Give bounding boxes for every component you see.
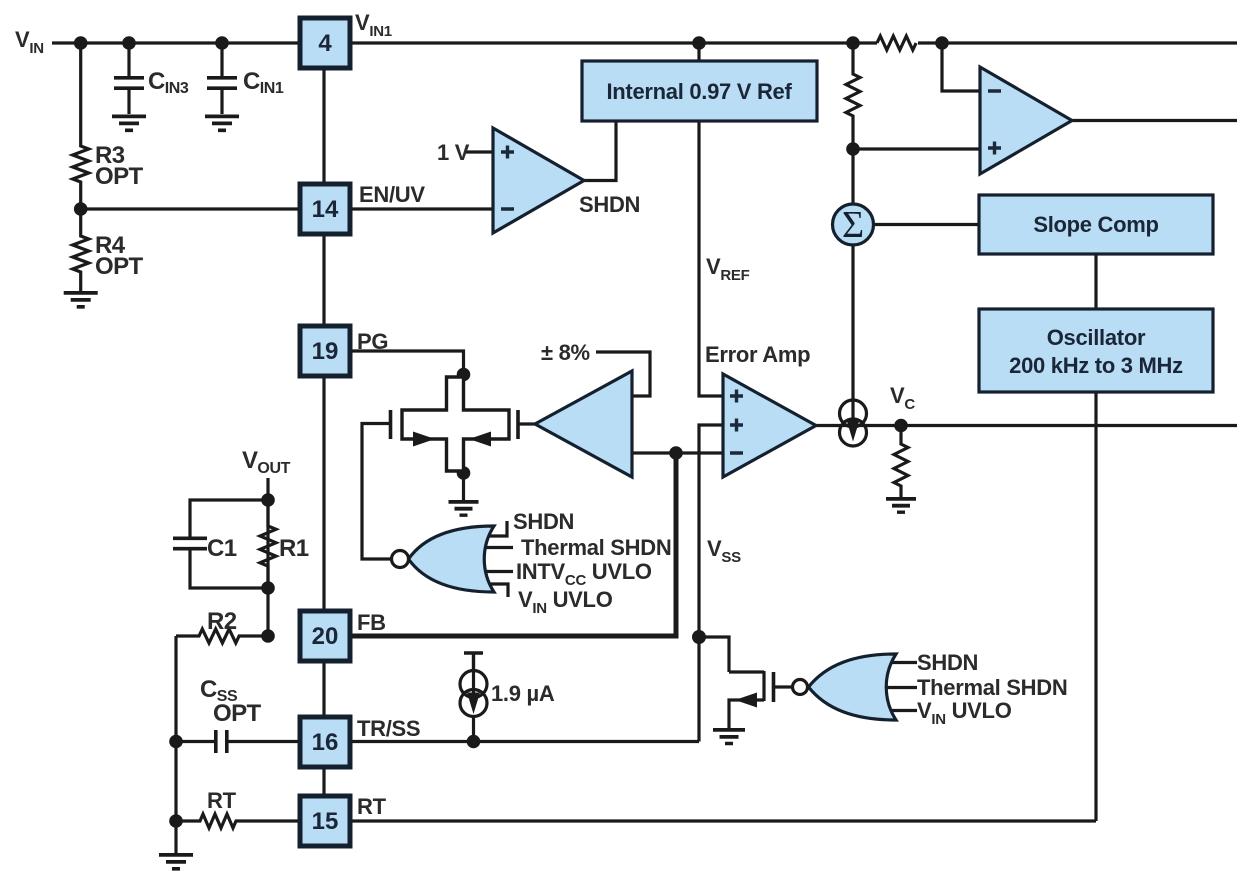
pin box 14	[300, 184, 350, 234]
node cross switch top junction	[457, 368, 471, 382]
svg-text:± 8%: ± 8%	[541, 340, 590, 365]
pin box 15	[300, 796, 350, 846]
logic gate NOR1 (4-input)	[392, 521, 514, 597]
svg-text:EN/UV: EN/UV	[359, 182, 425, 207]
wire VC output	[816, 424, 1237, 427]
current source I1 (VC)	[840, 399, 867, 446]
svg-text:VOUT: VOUT	[242, 447, 291, 477]
svg-text:FB: FB	[357, 610, 386, 635]
node sense resistor right junction	[935, 36, 949, 50]
node divider top junction	[846, 36, 860, 50]
wire VIN top rail	[52, 41, 877, 44]
node cross switch bottom junction	[457, 466, 471, 480]
wire FB thick net vertical	[350, 453, 676, 636]
pin box 16	[300, 717, 350, 767]
capacitor C1 branch	[190, 500, 268, 588]
resistor R2	[176, 629, 268, 643]
ground mosfet source	[713, 728, 745, 745]
wire PG pin to cross switch	[350, 351, 464, 377]
svg-text:OPT: OPT	[95, 253, 143, 280]
current source I2 (1.9uA)	[460, 671, 487, 717]
op-amp U4 PG comparator (mirrored)	[535, 371, 632, 477]
wire left ground rail	[174, 636, 177, 853]
svg-text:RT: RT	[357, 794, 387, 819]
resistor divider vertical	[846, 43, 860, 149]
capacitor CIN1 lead	[220, 43, 223, 114]
resistor R4	[73, 209, 89, 291]
node R3 R4 junction	[74, 202, 88, 216]
svg-text:VC: VC	[890, 383, 915, 413]
capacitor CIN3 lead	[127, 43, 130, 114]
svg-text:PG: PG	[357, 329, 388, 354]
node CIN3 junction	[122, 36, 136, 50]
svg-text:CIN1: CIN1	[243, 68, 284, 97]
node CSS left junction	[169, 735, 183, 749]
svg-text:Internal 0.97 V Ref: Internal 0.97 V Ref	[606, 79, 792, 104]
capacitor CSS plates	[216, 730, 227, 753]
wire sigma to slope comp	[874, 223, 980, 226]
svg-text:Thermal SHDN: Thermal SHDN	[521, 535, 671, 560]
svg-text:16: 16	[312, 729, 339, 756]
svg-text:1 V: 1 V	[437, 140, 470, 165]
svg-text:INTVCC UVLO: INTVCC UVLO	[516, 559, 652, 589]
wire sigma to current source	[851, 245, 854, 399]
op-amp U3 error amp	[723, 374, 816, 477]
resistor RT	[176, 814, 300, 828]
wire SHDN comparator output	[584, 121, 616, 181]
svg-text:OPT: OPT	[213, 700, 261, 727]
block Internal 0.97 V Ref	[582, 61, 817, 121]
svg-text:R1: R1	[279, 535, 309, 562]
svg-text:Oscillator: Oscillator	[1047, 325, 1146, 350]
svg-text:SHDN: SHDN	[579, 192, 640, 217]
summing node sigma	[833, 204, 874, 246]
svg-text:4: 4	[318, 30, 332, 57]
svg-text:VIN: VIN	[15, 27, 44, 57]
wire RT right	[350, 819, 1096, 822]
svg-text:19: 19	[312, 338, 339, 365]
svg-text:VREF: VREF	[706, 254, 750, 284]
wire 1V to comparator	[466, 150, 493, 153]
capacitor CIN3 plates	[114, 78, 144, 88]
ground VC resistor	[886, 497, 916, 514]
node R1 bottom junction	[261, 581, 275, 595]
node error amp minus junction	[669, 446, 683, 460]
wire TR/SS	[350, 740, 699, 743]
svg-text:R2: R2	[207, 608, 237, 635]
capacitor CSS lead left	[176, 740, 215, 743]
logic gate NOR2 (3-input)	[793, 654, 918, 720]
resistor (top rail current sense)	[877, 36, 916, 50]
svg-text:VIN UVLO: VIN UVLO	[518, 587, 613, 617]
svg-text:CIN3: CIN3	[148, 68, 189, 97]
svg-text:RT: RT	[207, 788, 237, 813]
wire pin column	[322, 43, 325, 821]
wire VOUT branch	[266, 478, 269, 636]
op-amp U1 SHDN comparator	[493, 128, 584, 233]
svg-text:Σ: Σ	[842, 204, 864, 246]
wire PG comparator to error amp minus	[632, 451, 723, 454]
svg-text:Slope Comp: Slope Comp	[1033, 212, 1158, 237]
svg-text:OPT: OPT	[95, 163, 143, 190]
node VC junction	[894, 419, 908, 433]
svg-text:VIN1: VIN1	[355, 10, 392, 40]
wire ref box top	[697, 43, 700, 61]
node CIN1 junction	[215, 36, 229, 50]
node divider mid junction	[846, 142, 860, 156]
svg-text:VSS: VSS	[707, 536, 741, 566]
ground CIN3	[112, 115, 146, 133]
wire pm8 feedback	[596, 352, 650, 396]
resistor R1	[260, 500, 276, 588]
wire EN/UV	[81, 207, 493, 210]
svg-text:SHDN: SHDN	[917, 650, 978, 675]
capacitor CIN1 plates	[207, 78, 237, 88]
ground cross switch	[449, 500, 479, 517]
wire VSS vertical	[699, 425, 723, 742]
capacitor C1 plates	[173, 538, 207, 548]
wire VREF vertical	[699, 121, 723, 396]
ground R4	[64, 291, 98, 309]
svg-text:Thermal SHDN: Thermal SHDN	[917, 675, 1067, 700]
svg-text:1.9 µA: 1.9 µA	[491, 681, 555, 706]
node RT left junction	[169, 814, 183, 828]
wire sigma top	[851, 149, 854, 204]
block Slope Comp	[979, 195, 1213, 254]
wire mosfet drain from VSS	[699, 637, 729, 672]
node FB R2 junction	[261, 629, 275, 643]
wire top rail right of resistor	[918, 41, 1237, 44]
resistor VC to ground	[894, 426, 908, 498]
current source 1.9uA top bar	[464, 653, 483, 671]
svg-text:15: 15	[312, 808, 339, 835]
wire comparator minus input	[942, 43, 980, 91]
ground CIN1	[205, 115, 239, 133]
block Oscillator	[979, 309, 1213, 392]
transistor Q2 TR/SS pulldown	[729, 671, 793, 728]
wire cross switch right gate	[520, 422, 537, 425]
capacitor CSS lead right	[227, 740, 300, 743]
pin box 4	[300, 18, 350, 68]
wire slope comp to oscillator	[1094, 254, 1097, 309]
pin box 20	[300, 611, 350, 661]
op-amp U2 top comparator	[980, 67, 1072, 174]
node VSS mosfet junction	[692, 630, 706, 644]
wire cross switch left gate	[362, 424, 392, 560]
svg-text:200 kHz to 3 MHz: 200 kHz to 3 MHz	[1009, 353, 1183, 378]
wire comparator plus input	[853, 147, 980, 150]
current source 1.9uA bottom lead	[472, 716, 475, 742]
svg-text:SHDN: SHDN	[513, 509, 574, 534]
ground left rail bottom	[159, 853, 193, 871]
svg-text:TR/SS: TR/SS	[357, 716, 420, 741]
node ref box rail junction	[692, 36, 706, 50]
wire comparator output	[1072, 119, 1237, 122]
node TR/SS 1.9uA junction	[467, 735, 481, 749]
svg-text:VIN UVLO: VIN UVLO	[917, 698, 1012, 728]
wire oscillator to RT	[1094, 392, 1097, 821]
svg-text:C1: C1	[207, 535, 237, 562]
pin box 19	[300, 326, 350, 376]
resistor R3	[73, 43, 89, 209]
node VOUT junction	[261, 493, 275, 507]
transistor Q1 back-to-back switch	[391, 377, 519, 471]
wire cross switch bottom to ground	[462, 471, 465, 500]
node VIN junction	[74, 36, 88, 50]
svg-text:20: 20	[312, 623, 339, 650]
svg-text:Error Amp: Error Amp	[705, 342, 810, 367]
svg-text:14: 14	[312, 196, 339, 223]
